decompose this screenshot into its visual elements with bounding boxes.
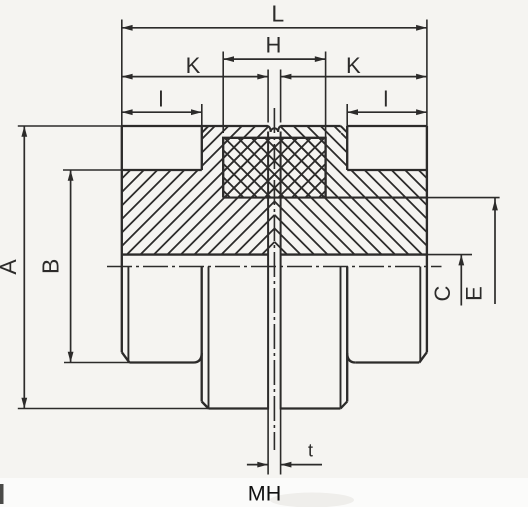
dimension H xyxy=(222,52,224,134)
faint smudge bottom centre-right xyxy=(270,493,354,507)
dimension l right xyxy=(346,104,348,126)
body left edge xyxy=(121,126,123,352)
dimension K right xyxy=(280,70,282,123)
flange chamfer edge lines xyxy=(208,267,210,409)
right t extension line xyxy=(280,410,282,475)
flange bottom left + A extension xyxy=(18,408,209,410)
svg-text:K: K xyxy=(346,53,361,78)
flange face left (view) xyxy=(201,267,203,402)
jaw chamfer edges at flange top xyxy=(202,126,209,133)
svg-text:l: l xyxy=(383,87,388,112)
chamfer edge line left hub xyxy=(127,267,129,362)
flange chamfer left xyxy=(202,402,209,409)
dimension C xyxy=(460,255,462,306)
B extension line top xyxy=(63,169,122,171)
left notch inner edge xyxy=(201,126,203,170)
svg-text:C: C xyxy=(430,285,455,301)
left t extension line xyxy=(267,410,269,475)
dimension t xyxy=(247,464,268,466)
flange top line right of gap + right notch top + L extension xyxy=(281,125,341,127)
dimension A xyxy=(23,126,25,409)
right hub inner face xyxy=(280,132,282,410)
bore lines xyxy=(122,253,268,255)
spider outline xyxy=(223,138,325,198)
fillet hub-to-flange left xyxy=(194,353,202,363)
flange top line + A extension line (left) xyxy=(18,125,122,127)
hub end chamfer left xyxy=(122,352,130,362)
hub bottom line left + B extension xyxy=(64,362,129,364)
flange face right (view) xyxy=(346,267,348,402)
svg-text:t: t xyxy=(308,441,313,461)
C extension line (bore extended right) xyxy=(427,254,472,256)
dimension L xyxy=(121,20,123,127)
horizontal axis centre line xyxy=(107,266,442,268)
vertical axis centre line xyxy=(273,108,275,450)
hub top lines xyxy=(122,169,202,171)
hatching: left hub/flange section, 45deg "/" xyxy=(122,126,275,255)
spider dome in jaw gap xyxy=(268,126,282,132)
svg-text:A: A xyxy=(0,259,21,275)
fillet hub-to-flange right xyxy=(347,353,355,363)
right notch inner edge xyxy=(346,126,348,170)
svg-text:B: B xyxy=(38,259,64,274)
hub end chamfer right xyxy=(419,352,427,362)
elastomer spider cross-hatch xyxy=(223,138,325,198)
svg-text:K: K xyxy=(186,53,201,78)
flange bottom right xyxy=(281,407,341,409)
svg-text:L: L xyxy=(271,1,284,27)
left hub inner face xyxy=(267,132,269,410)
svg-text:MH: MH xyxy=(248,482,281,506)
svg-text:E: E xyxy=(461,286,486,301)
bottom-left edge mark xyxy=(0,484,4,504)
hub bottom line right xyxy=(355,361,419,363)
dimension K left xyxy=(267,70,269,123)
flange chamfer right xyxy=(341,402,348,409)
hatching: right hub/flange section, 45deg "\" xyxy=(274,126,427,255)
spider bottom line across to right edge + E extension xyxy=(223,197,427,199)
svg-text:H: H xyxy=(265,33,281,58)
chamfer edge line right hub xyxy=(419,267,421,362)
body right edge xyxy=(426,126,428,352)
svg-text:l: l xyxy=(159,87,164,112)
dimension E xyxy=(494,198,496,304)
dimension B xyxy=(70,170,72,363)
dimension l left xyxy=(201,104,203,126)
